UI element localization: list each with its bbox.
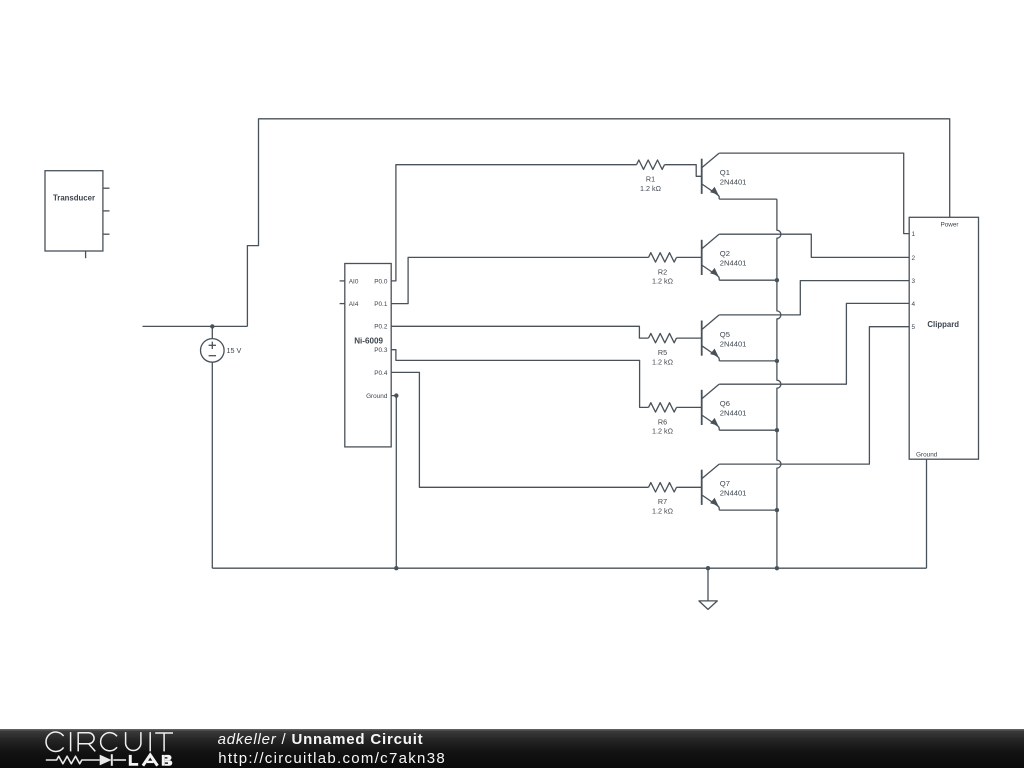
wire bottom ground rail (212, 567, 926, 569)
transistor Q2 2N4401 (702, 234, 720, 280)
junction Q6 emitter on bus (775, 428, 779, 432)
wire P0.1 up to R2 row (391, 257, 648, 303)
transistor Q7 2N4401 (702, 464, 720, 510)
wire Q5 emitter to bus (719, 360, 777, 362)
wire R1 to Q1 base (665, 165, 702, 177)
wire Ni-6009 Ground pin down to bottom rail (391, 396, 396, 569)
junction Q7 emitter on bus (775, 508, 779, 512)
junction Ni-6009 ground with bottom rail (394, 566, 398, 570)
transducer block "Transducer" (45, 171, 110, 259)
wire Q6 emitter to bus (719, 429, 777, 431)
wire P0.0 up to R1 row (391, 165, 636, 281)
wire R2 to Q2 base (677, 256, 702, 258)
junction Q5 emitter on bus (775, 359, 779, 363)
svg-text:http://circuitlab.com/c7akn38: http://circuitlab.com/c7akn38 (218, 750, 446, 767)
wire R5 to Q5 base (677, 337, 702, 339)
junction at Ni-6009 Ground pin (394, 393, 398, 397)
wire supply riser and top rail to Clippard Power pin (247, 119, 949, 327)
transistor Q6 2N4401 (702, 384, 720, 430)
ground symbol (699, 568, 717, 609)
wire Q1 collector to Clippard pin 1 (719, 153, 909, 234)
wire P0.3 down to R6 row (391, 350, 648, 408)
junction ground stem on rail (706, 566, 710, 570)
wire V1 bottom lead to ground rail (211, 362, 213, 568)
wire P0.2 to R5 row (391, 326, 648, 338)
pin AI0 of Ni-6009 (340, 280, 345, 282)
wire V1 top lead (211, 326, 213, 338)
resistor R1 1.2 kΩ (637, 160, 665, 169)
resistor R5 1.2 kΩ (649, 333, 677, 342)
resistor R2 1.2 kΩ (649, 253, 677, 262)
transistor Q5 2N4401 (702, 315, 720, 361)
pin AI4 of Ni-6009 (340, 303, 345, 305)
junction Q2 emitter on bus (775, 278, 779, 282)
wire Q1 emitter to bus (719, 198, 777, 200)
resistor R6 1.2 kΩ (649, 403, 677, 412)
resistor R7 1.2 kΩ (649, 483, 677, 492)
transistor Q1 2N4401 (702, 153, 720, 199)
CircuitLab logo resistor-diode doodle (46, 756, 126, 764)
wire P0.4 down to R7 row (391, 372, 648, 487)
CircuitLab logo wordmark LAB (drawn letterforms) (129, 755, 138, 766)
wire Q2 emitter to bus (719, 279, 777, 281)
wire R6 to Q6 base (677, 406, 702, 408)
footer bar (0, 729, 1024, 768)
voltage source V1 15 V (201, 339, 225, 363)
CircuitLab logo wordmark CIRCUIT (drawn letterforms) (46, 732, 173, 751)
wire Q6 collector to Clippard pin 4 (719, 303, 909, 384)
wire Q2 collector to Clippard pin 2 (719, 234, 909, 257)
junction emitter bus on rail (775, 566, 779, 570)
junction V1 positive node (210, 324, 214, 328)
wire Q7 collector to Clippard pin 5 (719, 327, 909, 464)
wire R7 to Q7 base (677, 486, 702, 488)
svg-text:adkeller / Unnamed Circuit: adkeller / Unnamed Circuit (218, 731, 424, 748)
wire Q5 collector to Clippard pin 3 (719, 281, 909, 315)
wire Clippard Ground pin to bottom rail (926, 459, 928, 568)
wire supply horizontal from open end to corner (143, 325, 248, 327)
wire Q7 emitter to bus (719, 509, 777, 511)
DAQ block Ni-6009 (345, 264, 391, 447)
wire emitter bus with hops down to bottom rail (777, 199, 781, 568)
connector block Clippard (909, 217, 978, 459)
